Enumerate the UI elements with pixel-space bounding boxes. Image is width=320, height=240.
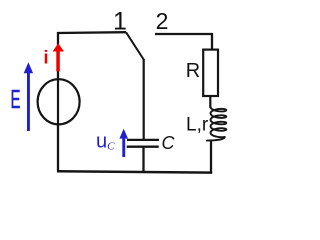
wire lower-left bbox=[57, 124, 59, 172]
svg-text:uC: uC bbox=[96, 131, 115, 153]
switch blade bbox=[126, 32, 144, 60]
capacitor C bbox=[127, 140, 159, 147]
wire top-left bbox=[58, 32, 126, 80]
wire resistor to inductor bbox=[209, 96, 211, 108]
voltage source E bbox=[38, 79, 80, 125]
inductor L,r bbox=[207, 107, 227, 141]
svg-text:E: E bbox=[11, 84, 21, 114]
voltage arrow uC bbox=[119, 129, 128, 157]
wire contact 2 to resistor bbox=[155, 34, 212, 50]
wire bottom bbox=[57, 171, 212, 172]
emf arrow E bbox=[24, 62, 33, 131]
current arrow i bbox=[53, 43, 64, 71]
wire below inductor bbox=[210, 141, 212, 174]
svg-text:C: C bbox=[162, 133, 176, 153]
svg-text:R: R bbox=[186, 60, 200, 82]
resistor R bbox=[203, 50, 218, 96]
svg-text:i: i bbox=[44, 48, 49, 68]
svg-text:2: 2 bbox=[156, 8, 169, 34]
wire middle branch bbox=[143, 59, 145, 139]
svg-text:L,r: L,r bbox=[186, 115, 209, 136]
svg-text:1: 1 bbox=[113, 8, 127, 36]
wire below capacitor bbox=[142, 148, 144, 173]
